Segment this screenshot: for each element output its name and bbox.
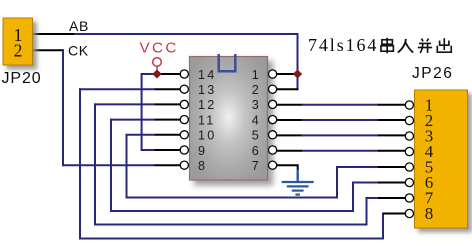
wire U1 pin 12 stub	[94, 103, 180, 105]
connector JP20	[3, 18, 33, 65]
JP26 pin 3 circle	[405, 132, 413, 140]
wire VCC vertical to pin 9	[141, 73, 143, 151]
JP26 pin 7 circle	[405, 194, 413, 202]
svg-text:74ls164: 74ls164	[308, 35, 378, 55]
U1 pin 2 circle	[269, 85, 277, 93]
power port VCC circle	[153, 58, 162, 71]
wire QF vertical left	[110, 119, 112, 212]
title hanzi chu	[437, 38, 451, 52]
title hanzi ru	[398, 39, 413, 53]
JP26 pin 4 circle	[405, 147, 413, 155]
junction AB at U1 pin 1	[293, 70, 302, 79]
wire QG vertical left	[94, 103, 96, 225]
title hanzi bing	[418, 39, 432, 53]
wire U1 pin 11 stub	[110, 119, 180, 121]
JP26 pin 8 circle	[405, 209, 413, 217]
wire QE bottom horizontal	[126, 197, 339, 199]
svg-text:14: 14	[198, 68, 216, 82]
wire net AB horizontal from JP20 pin 1	[33, 33, 299, 35]
wire QG bottom horizontal	[94, 224, 368, 226]
wire QH vertical right up	[382, 213, 384, 240]
svg-text:8: 8	[198, 159, 207, 173]
wire stub U1 pin 2	[277, 88, 299, 90]
U1 pin 10 circle	[180, 131, 188, 139]
svg-text:9: 9	[198, 144, 207, 158]
U1 pin 13 circle	[180, 85, 188, 93]
svg-text:JP26: JP26	[412, 65, 453, 82]
JP26 pin 5 circle	[405, 163, 413, 171]
U1 pin 14 circle	[180, 70, 188, 78]
wire VCC horizontal to U1 pin 9	[141, 149, 181, 151]
svg-text:11: 11	[198, 113, 215, 127]
svg-text:3: 3	[252, 98, 259, 112]
wire QE vertical right up	[336, 166, 338, 199]
wire QH vertical left	[79, 88, 81, 239]
wire U1 pin 7 to ground	[277, 165, 298, 170]
svg-text:AB: AB	[69, 18, 89, 34]
wire U1 pin 10 stub	[126, 134, 181, 136]
wire net AB vertical down to U1 pins 1,2	[297, 33, 299, 90]
svg-text:2: 2	[14, 40, 23, 60]
JP26 pin 1 circle	[405, 101, 413, 109]
wire QE to JP26 pin 5	[337, 166, 405, 168]
wire QG vertical right up	[366, 197, 368, 226]
wire VCC to U1 pin 14	[141, 73, 181, 75]
svg-text:4: 4	[252, 113, 259, 127]
wire U1 pin 13 stub	[79, 88, 180, 90]
svg-text:10: 10	[198, 129, 216, 143]
U1 pin 4 circle	[269, 116, 277, 124]
U1 pin 9 circle	[180, 146, 188, 154]
U1 pin 8 circle	[180, 161, 188, 169]
svg-text:7: 7	[252, 159, 259, 173]
svg-text:12: 12	[198, 98, 216, 112]
wire net CK from JP20 pin 2	[33, 49, 65, 51]
JP26 pin 6 circle	[405, 178, 413, 186]
wire QH bottom horizontal	[79, 238, 384, 240]
svg-text:13: 13	[198, 83, 216, 97]
ground symbol	[282, 170, 314, 195]
IC U1 74LS164 body	[190, 57, 268, 181]
wire QF vertical right up	[352, 182, 354, 213]
U1 pin 3 circle	[269, 100, 277, 108]
U1 pin 5 circle	[269, 131, 277, 139]
wire QF to JP26 pin 6	[353, 182, 405, 184]
U1 pin 11 circle	[180, 116, 188, 124]
wire QF bottom horizontal	[110, 210, 354, 212]
JP26 pin 2 circle	[405, 116, 413, 124]
wire QD U1 pin 6 to JP26 pin 4	[277, 150, 406, 152]
wire QG to JP26 pin 7	[367, 197, 406, 199]
connector JP26	[415, 90, 468, 228]
IC U1 notch	[219, 54, 236, 71]
U1 pin 7 circle	[269, 161, 277, 169]
svg-text:5: 5	[252, 129, 259, 143]
wire QA U1 pin 3 to JP26 pin 1	[277, 104, 406, 106]
wire QE vertical left	[126, 134, 128, 199]
title hanzi chuan	[381, 38, 393, 54]
wire stub U1 pin 1	[277, 73, 299, 75]
wire QH to JP26 pin 8	[383, 213, 405, 215]
svg-text:8: 8	[425, 204, 434, 223]
svg-text:2: 2	[252, 83, 259, 97]
wire QB U1 pin 4 to JP26 pin 2	[277, 119, 406, 121]
U1 pin 6 circle	[269, 146, 277, 154]
svg-text:CK: CK	[68, 43, 89, 59]
junction VCC at U1 pin 14	[152, 70, 161, 79]
svg-text:JP20: JP20	[2, 70, 42, 87]
svg-text:1: 1	[252, 68, 259, 82]
wire net CK horizontal to U1 pin 8	[62, 164, 180, 166]
U1 pin 12 circle	[180, 100, 188, 108]
wire net CK vertical	[62, 49, 64, 166]
wire QC U1 pin 5 to JP26 pin 3	[277, 134, 406, 136]
U1 pin 1 circle	[269, 70, 277, 78]
svg-text:6: 6	[252, 144, 259, 158]
svg-text:VCC: VCC	[140, 40, 179, 57]
